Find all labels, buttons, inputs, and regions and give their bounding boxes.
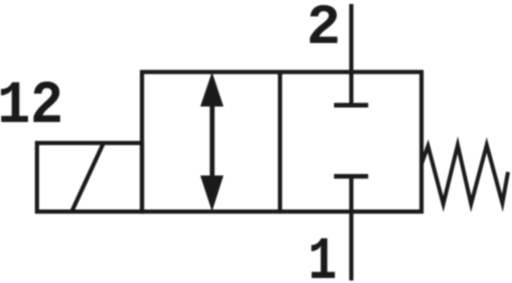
flow arrow head up: [200, 72, 223, 107]
valve position divider: [278, 72, 282, 212]
pilot actuator diagonal: [72, 143, 104, 211]
valve body left position box: [142, 72, 422, 212]
svg-text:1: 1: [308, 229, 337, 283]
port 2 line: [349, 4, 353, 105]
svg-text:2: 2: [307, 0, 341, 61]
pilot actuator box 12: [37, 143, 142, 212]
port 2 blocked T-bar: [334, 103, 368, 108]
port 1 blocked T-bar: [334, 174, 368, 179]
flow arrow shaft: [210, 100, 215, 182]
return spring: [422, 145, 509, 204]
port 1 line: [349, 176, 353, 281]
flow arrow head down: [200, 176, 223, 212]
svg-text:12: 12: [0, 73, 63, 141]
